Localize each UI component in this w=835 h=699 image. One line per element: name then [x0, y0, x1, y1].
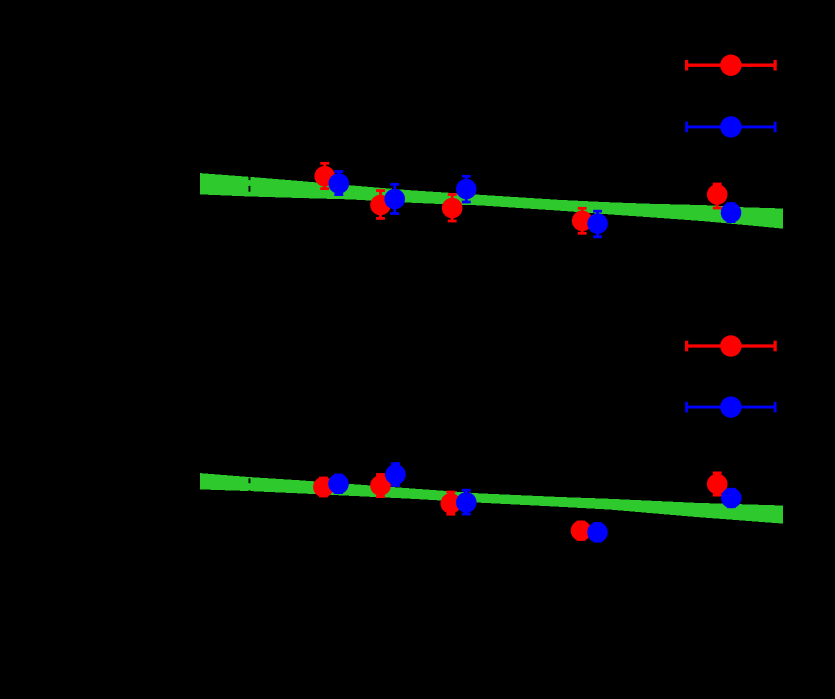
top blue point 5 marker [721, 202, 742, 223]
bottom blue point 3 error bar [462, 490, 471, 514]
bottom blue point 2 error bar [391, 464, 400, 486]
top panel fit band [200, 173, 783, 229]
top blue point 5 error bar [727, 204, 736, 222]
top blue point 3 error bar [462, 176, 471, 202]
dashed reference line, top panel [249, 175, 251, 181]
top red point 5 marker [707, 184, 728, 205]
bottom red point 4 marker [571, 520, 592, 541]
bottom red point 2 marker [370, 475, 391, 496]
bottom blue point 4 error bar [593, 524, 602, 541]
bottom red point 1 marker [313, 477, 334, 498]
top red point 3 marker [442, 198, 463, 219]
top red point 5 error bar [713, 184, 722, 208]
top blue point 4 marker [587, 213, 608, 234]
top red point 1 marker [314, 166, 335, 187]
legend top red [685, 60, 776, 71]
top blue point 1 error bar [334, 172, 343, 195]
bottom red point 1 error bar [319, 478, 328, 496]
bottom red point 3 marker [441, 493, 462, 514]
top blue point 1 marker [329, 173, 350, 194]
bottom blue point 3 marker [456, 492, 477, 513]
bottom blue point 4 marker [587, 522, 608, 543]
top blue point 2 marker [384, 189, 405, 210]
bottom blue point 5 error bar [727, 489, 736, 506]
top red point 3 error bar [448, 195, 457, 222]
bottom red point 4 error bar [577, 522, 586, 539]
legend bottom blue [685, 402, 776, 413]
dashed reference line, bottom panel [249, 478, 251, 483]
bottom panel fit band [200, 473, 783, 523]
legend top blue [685, 122, 776, 133]
top red point 1 error bar [320, 163, 329, 188]
bottom red point 3 error bar [446, 492, 455, 514]
top red point 4 marker [572, 211, 593, 232]
top red point 2 error bar [376, 191, 385, 219]
top red point 4 error bar [578, 208, 587, 233]
bottom red point 2 error bar [376, 475, 385, 497]
top red point 2 marker [370, 195, 391, 216]
bottom blue point 2 marker [385, 464, 406, 485]
legend bottom red [685, 341, 776, 352]
top blue point 2 error bar [390, 184, 399, 213]
bottom red point 5 marker [707, 474, 728, 495]
top blue point 4 error bar [593, 211, 602, 237]
bottom blue point 1 marker [328, 474, 349, 495]
bottom blue point 1 error bar [334, 475, 343, 493]
bottom blue point 5 marker [721, 488, 742, 509]
top blue point 3 marker [456, 179, 477, 200]
bottom red point 5 error bar [713, 473, 722, 495]
